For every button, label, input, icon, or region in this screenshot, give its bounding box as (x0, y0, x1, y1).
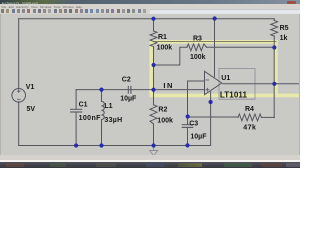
junction R2 bottom / ground (152, 143, 156, 147)
wire output (223, 83, 300, 85)
wire U1 V- to ground rail (210, 92, 212, 146)
svg-text:R2: R2 (158, 107, 167, 114)
svg-text:U1: U1 (221, 75, 230, 82)
wire IN node to R3 (154, 47, 187, 65)
wire left vertical (V1 branch) (18, 19, 20, 146)
resistor R1 (150, 19, 157, 105)
junction R1 top / V+ rail (151, 17, 155, 21)
svg-text:100k: 100k (157, 118, 173, 125)
junction L1 bottom / ground rail (99, 143, 103, 147)
svg-text:IN: IN (163, 81, 174, 90)
junction U1 V+ rail (213, 16, 217, 20)
junction L1 top (99, 88, 103, 92)
taskbar (0, 162, 300, 168)
svg-text:R4: R4 (245, 106, 254, 113)
svg-text:R1: R1 (158, 34, 167, 41)
wire U1 V+ (214, 19, 216, 77)
op-amp U1 balance box (219, 68, 255, 99)
junction R3 right / output column (272, 45, 276, 49)
svg-text:LT1011: LT1011 (220, 90, 248, 99)
capacitor C3 (182, 81, 193, 145)
resistor R2 (150, 105, 157, 146)
svg-text:R5: R5 (280, 25, 289, 32)
junction C3 top / R4 left (186, 114, 190, 118)
svg-text:100nF: 100nF (79, 115, 102, 122)
wire inside highlighted net (R1 to output column) (154, 41, 276, 43)
svg-text:33µH: 33µH (104, 117, 122, 124)
svg-text:C1: C1 (79, 102, 88, 109)
svg-text:5V: 5V (27, 106, 36, 113)
svg-text:C3: C3 (189, 121, 198, 128)
toolbar (0, 9, 300, 15)
svg-text:10µF: 10µF (120, 95, 137, 102)
svg-text:C2: C2 (122, 77, 131, 84)
status bar (0, 155, 300, 160)
close button (287, 1, 296, 4)
ground (150, 146, 158, 156)
resistor R5 (271, 19, 278, 36)
taskbar highlight (0, 160, 300, 162)
wire top rail (19, 18, 275, 20)
svg-text:47k: 47k (243, 124, 256, 131)
title bar (0, 0, 300, 4)
junction U1 output (272, 82, 276, 86)
resistor R3 (187, 44, 207, 51)
voltage source V1 (12, 89, 26, 103)
resistor R4 (188, 114, 275, 121)
svg-text:V1: V1 (26, 84, 35, 91)
svg-text:L1: L1 (104, 103, 112, 110)
svg-text:100k: 100k (157, 44, 173, 51)
junction C2 right / IN wire (151, 88, 155, 92)
highlighted net (yellow) (151, 42, 300, 96)
wire R3 to output node (207, 46, 275, 48)
junction U1 V- stem (209, 100, 213, 104)
capacitor C2 (128, 86, 131, 93)
wire right vertical (output net) (273, 36, 275, 118)
svg-text:R3: R3 (193, 36, 202, 43)
wire U1 minus input (188, 80, 205, 82)
inductor L1 (102, 90, 105, 146)
junction C1 bottom / ground rail (74, 143, 78, 147)
junction C3 bottom / ground rail (185, 143, 189, 147)
wire mid horizontal (C1/L1/C2 to U1 +) (76, 89, 204, 91)
schematic canvas (0, 14, 300, 155)
svg-text:1k: 1k (280, 35, 288, 42)
window side borders (0, 14, 1, 160)
menu bar (0, 4, 300, 8)
title text (2, 1, 48, 4)
op-amp U1 triangle (205, 71, 222, 94)
capacitor C1 (71, 90, 82, 146)
svg-text:10µF: 10µF (190, 134, 207, 141)
svg-text:100k: 100k (190, 54, 206, 61)
wire bottom rail (19, 145, 211, 147)
junction node IN at R1 bottom (152, 63, 156, 67)
